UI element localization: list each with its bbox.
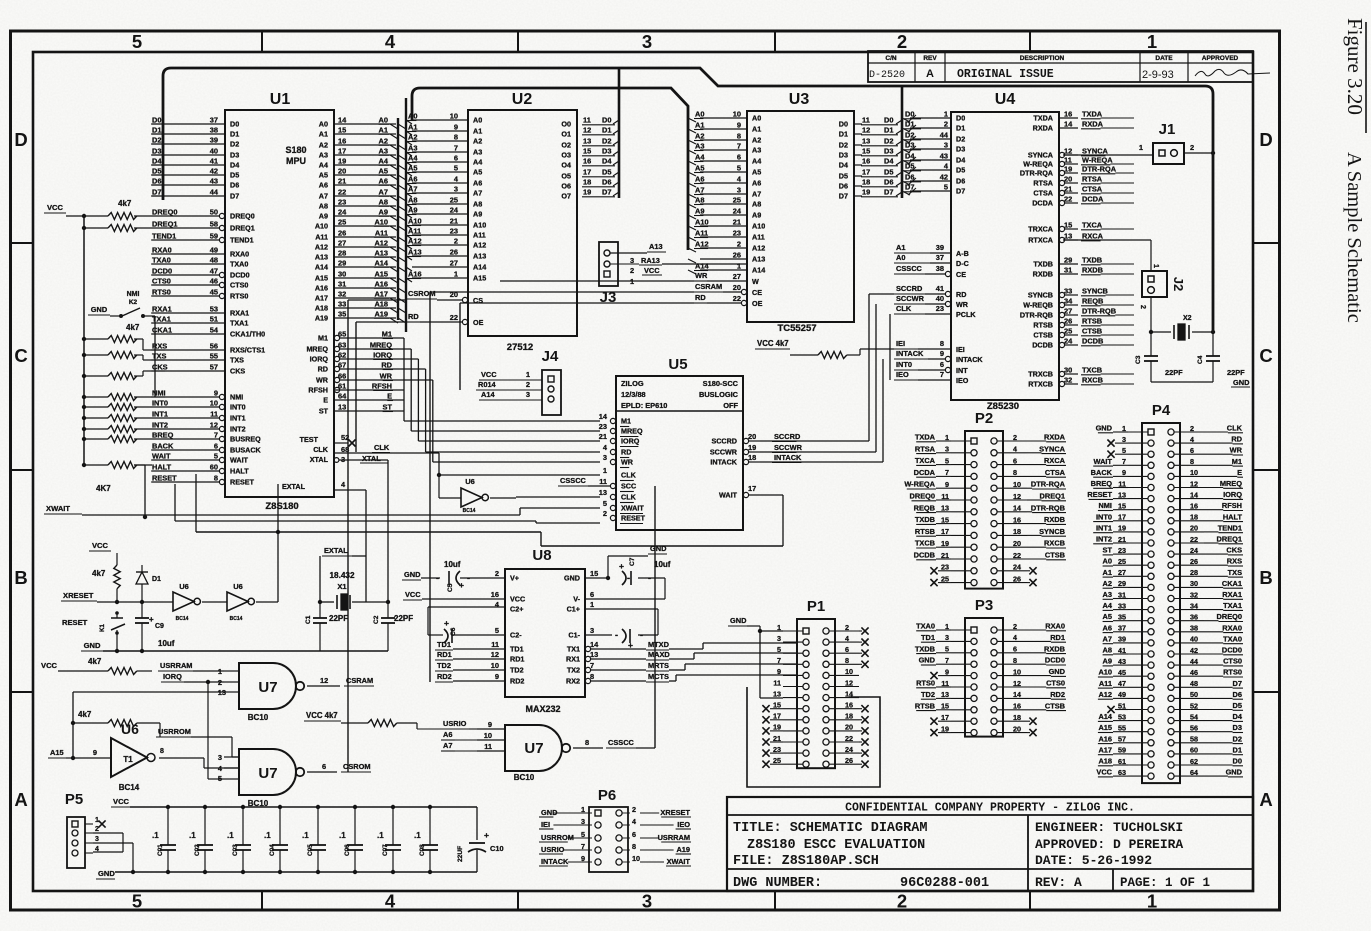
svg-text:32: 32 bbox=[1064, 376, 1072, 385]
svg-text:30: 30 bbox=[338, 270, 346, 279]
svg-text:BREQ: BREQ bbox=[152, 431, 174, 440]
svg-text:3: 3 bbox=[944, 141, 948, 150]
svg-text:48: 48 bbox=[1190, 679, 1198, 688]
svg-text:MRTS: MRTS bbox=[648, 661, 669, 670]
svg-text:TXA0: TXA0 bbox=[1223, 634, 1242, 643]
svg-text:C4: C4 bbox=[1197, 355, 1204, 364]
svg-text:.1: .1 bbox=[189, 831, 196, 840]
svg-text:O6: O6 bbox=[561, 182, 571, 191]
svg-text:RTS0: RTS0 bbox=[916, 679, 935, 688]
wires left stubs bbox=[145, 470, 152, 472]
svg-text:GND: GND bbox=[1096, 424, 1113, 433]
IC U4 Z85230 ESCC body bbox=[951, 91, 1059, 412]
svg-text:11: 11 bbox=[583, 116, 591, 125]
svg-text:VCC: VCC bbox=[92, 541, 109, 550]
svg-text:WAIT: WAIT bbox=[1094, 457, 1113, 466]
svg-text:58: 58 bbox=[210, 220, 218, 229]
svg-text:CSRAM: CSRAM bbox=[695, 282, 722, 291]
connector J3 bbox=[599, 242, 747, 306]
svg-text:4K7: 4K7 bbox=[96, 484, 111, 493]
svg-text:8: 8 bbox=[454, 133, 458, 142]
svg-text:39: 39 bbox=[936, 243, 944, 252]
svg-text:D2: D2 bbox=[956, 135, 965, 144]
svg-text:10: 10 bbox=[491, 661, 499, 670]
svg-text:RXS: RXS bbox=[152, 342, 167, 351]
svg-text:31: 31 bbox=[338, 280, 346, 289]
svg-text:2: 2 bbox=[526, 380, 530, 389]
svg-text:12: 12 bbox=[1064, 147, 1072, 156]
svg-text:22: 22 bbox=[1013, 551, 1021, 560]
svg-text:.1: .1 bbox=[264, 831, 271, 840]
svg-text:12: 12 bbox=[210, 421, 218, 430]
svg-text:A6: A6 bbox=[408, 175, 417, 184]
capacitor C08 0.1uF decoupling bbox=[414, 805, 438, 874]
svg-text:A0: A0 bbox=[896, 253, 905, 262]
svg-text:X2: X2 bbox=[1183, 315, 1192, 322]
svg-text:C5: C5 bbox=[447, 583, 454, 592]
svg-text:A5: A5 bbox=[408, 164, 417, 173]
wire U2 data rail bbox=[618, 68, 621, 198]
svg-text:4: 4 bbox=[1013, 633, 1017, 642]
pins U2 CS OE bbox=[407, 289, 484, 327]
svg-text:CLK: CLK bbox=[313, 445, 329, 454]
svg-text:4k7: 4k7 bbox=[126, 323, 140, 332]
wire U3 control bbox=[430, 281, 694, 380]
svg-text:4: 4 bbox=[632, 817, 636, 826]
wire data bus top bbox=[163, 68, 1213, 332]
svg-text:2: 2 bbox=[1190, 143, 1194, 152]
svg-text:18: 18 bbox=[748, 453, 756, 462]
pins U1 right control bbox=[306, 330, 393, 416]
svg-text:17: 17 bbox=[862, 168, 870, 177]
svg-text:25: 25 bbox=[338, 218, 346, 227]
svg-text:A0: A0 bbox=[752, 114, 761, 123]
svg-text:A7: A7 bbox=[319, 192, 328, 201]
svg-text:29: 29 bbox=[1064, 256, 1072, 265]
svg-text:18: 18 bbox=[845, 712, 853, 721]
svg-text:M1: M1 bbox=[1232, 457, 1242, 466]
svg-text:BUSACK: BUSACK bbox=[230, 446, 262, 455]
resistor 4k7 usrram pullup bbox=[41, 657, 224, 675]
resistor 4k7 usrrom pullup bbox=[71, 710, 160, 737]
svg-text:WR: WR bbox=[695, 271, 708, 280]
connector J1 bbox=[1063, 121, 1215, 164]
svg-text:22: 22 bbox=[845, 734, 853, 743]
svg-text:U6: U6 bbox=[121, 721, 139, 737]
svg-text:25: 25 bbox=[450, 196, 458, 205]
svg-text:D2: D2 bbox=[602, 137, 611, 146]
svg-text:13: 13 bbox=[590, 650, 598, 659]
svg-text:3: 3 bbox=[454, 185, 458, 194]
svg-text:57: 57 bbox=[210, 363, 218, 372]
svg-text:20: 20 bbox=[1013, 724, 1021, 733]
svg-text:ZILOG: ZILOG bbox=[621, 379, 644, 388]
svg-text:DATE: 5-26-1992: DATE: 5-26-1992 bbox=[1035, 853, 1152, 868]
svg-text:3: 3 bbox=[590, 626, 594, 635]
svg-text:40: 40 bbox=[936, 294, 944, 303]
svg-text:FILE: Z8S180AP.SCH: FILE: Z8S180AP.SCH bbox=[733, 854, 879, 869]
svg-text:BACK: BACK bbox=[1091, 468, 1113, 477]
svg-text:6: 6 bbox=[940, 360, 944, 369]
svg-text:8: 8 bbox=[632, 842, 636, 851]
svg-text:XTAL: XTAL bbox=[310, 455, 329, 464]
svg-text:23: 23 bbox=[338, 198, 346, 207]
svg-text:C07: C07 bbox=[382, 844, 389, 856]
wire VCC rail left bbox=[83, 216, 85, 465]
svg-text:TITLE: SCHEMATIC DIAGRAM: TITLE: SCHEMATIC DIAGRAM bbox=[733, 821, 927, 836]
svg-text:2: 2 bbox=[495, 569, 499, 578]
svg-text:23: 23 bbox=[936, 304, 944, 313]
svg-text:A18: A18 bbox=[315, 304, 328, 313]
svg-text:A3: A3 bbox=[1103, 590, 1112, 599]
svg-text:15: 15 bbox=[338, 126, 346, 135]
svg-text:USRRAM: USRRAM bbox=[658, 833, 690, 842]
svg-text:25: 25 bbox=[733, 196, 741, 205]
svg-text:GND: GND bbox=[730, 616, 747, 625]
svg-text:23: 23 bbox=[450, 227, 458, 236]
svg-text:CTS0: CTS0 bbox=[230, 281, 248, 290]
svg-text:A15: A15 bbox=[1098, 723, 1112, 732]
svg-text:34: 34 bbox=[1064, 297, 1073, 306]
wire csrom bbox=[308, 770, 348, 772]
svg-text:MREQ: MREQ bbox=[306, 345, 328, 354]
svg-text:3: 3 bbox=[603, 453, 607, 462]
wire csram vertical bbox=[429, 292, 431, 682]
svg-text:33: 33 bbox=[338, 300, 346, 309]
svg-text:16: 16 bbox=[845, 701, 853, 710]
capacitor C4 22PF bbox=[1197, 332, 1245, 382]
svg-text:43: 43 bbox=[210, 177, 218, 186]
svg-text:A5: A5 bbox=[473, 168, 482, 177]
svg-text:P1: P1 bbox=[807, 598, 825, 615]
svg-text:16: 16 bbox=[1013, 515, 1021, 524]
svg-text:D7: D7 bbox=[602, 188, 611, 197]
wire address bus top bbox=[412, 88, 688, 250]
svg-text:TXA0: TXA0 bbox=[152, 256, 171, 265]
svg-text:15: 15 bbox=[862, 147, 870, 156]
svg-text:D1: D1 bbox=[884, 126, 893, 135]
svg-text:D3: D3 bbox=[602, 147, 611, 156]
svg-text:A8: A8 bbox=[379, 198, 388, 207]
svg-text:A9: A9 bbox=[408, 206, 417, 215]
svg-text:20: 20 bbox=[1064, 175, 1072, 184]
svg-text:VCC 4k7: VCC 4k7 bbox=[757, 339, 789, 348]
svg-text:RD1: RD1 bbox=[510, 655, 524, 664]
svg-text:GND: GND bbox=[98, 869, 115, 878]
svg-text:PAGE: 1 OF 1: PAGE: 1 OF 1 bbox=[1120, 876, 1210, 890]
nand gate U7a BC10 bbox=[218, 663, 374, 722]
svg-text:A13: A13 bbox=[752, 255, 765, 264]
inverter U6 reset 2 bbox=[227, 484, 278, 622]
svg-text:11: 11 bbox=[1118, 479, 1126, 488]
capacitor C06 0.1uF decoupling bbox=[339, 805, 363, 874]
svg-text:RTSA: RTSA bbox=[915, 444, 936, 453]
svg-text:RXDA: RXDA bbox=[1033, 124, 1053, 133]
svg-text:RD: RD bbox=[1231, 435, 1242, 444]
svg-text:D: D bbox=[14, 129, 27, 150]
svg-text:J2: J2 bbox=[1171, 277, 1186, 291]
svg-text:A2: A2 bbox=[752, 136, 761, 145]
svg-text:5: 5 bbox=[132, 891, 142, 912]
svg-text:2-9-93: 2-9-93 bbox=[1142, 69, 1174, 81]
svg-text:2: 2 bbox=[1190, 424, 1194, 433]
svg-text:SCCRD: SCCRD bbox=[896, 284, 923, 293]
svg-text:A Sample Schematic: A Sample Schematic bbox=[1343, 152, 1365, 323]
svg-text:56: 56 bbox=[1190, 724, 1198, 733]
svg-text:K2: K2 bbox=[129, 299, 138, 306]
wire csrom vertical bbox=[348, 300, 407, 772]
svg-text:1: 1 bbox=[1152, 264, 1159, 268]
svg-text:RTS0: RTS0 bbox=[1223, 668, 1242, 677]
resistor 4k7 pullup INT0 bbox=[82, 404, 152, 411]
svg-text:D1: D1 bbox=[839, 130, 848, 139]
svg-text:RTS0: RTS0 bbox=[230, 292, 248, 301]
svg-text:+: + bbox=[149, 615, 154, 624]
svg-text:53: 53 bbox=[210, 305, 218, 314]
svg-text:O7: O7 bbox=[561, 192, 571, 201]
svg-text:W-REQA: W-REQA bbox=[904, 480, 935, 489]
svg-text:A11: A11 bbox=[315, 233, 328, 242]
svg-text:RTSB: RTSB bbox=[1033, 321, 1053, 330]
svg-text:XWAIT: XWAIT bbox=[621, 504, 644, 513]
svg-text:.1: .1 bbox=[227, 831, 234, 840]
svg-text:SCCRD: SCCRD bbox=[711, 437, 737, 446]
capacitor C6 reservoir bbox=[428, 607, 505, 643]
svg-text:DREQ1: DREQ1 bbox=[230, 224, 255, 233]
svg-text:A2: A2 bbox=[695, 132, 704, 141]
svg-text:26: 26 bbox=[1190, 557, 1198, 566]
svg-text:A8: A8 bbox=[408, 196, 417, 205]
svg-text:RFSH: RFSH bbox=[372, 382, 392, 391]
svg-text:SYNCA: SYNCA bbox=[1039, 444, 1066, 453]
connector P3 bbox=[915, 597, 1066, 737]
svg-text:14: 14 bbox=[599, 412, 608, 421]
svg-text:10uf: 10uf bbox=[158, 639, 175, 648]
svg-text:46: 46 bbox=[1190, 668, 1198, 677]
svg-text:62: 62 bbox=[1190, 757, 1198, 766]
svg-text:CTSB: CTSB bbox=[1082, 327, 1102, 336]
svg-text:S180: S180 bbox=[285, 145, 306, 155]
svg-text:9: 9 bbox=[940, 349, 944, 358]
svg-text:A14: A14 bbox=[752, 266, 765, 275]
svg-text:TRXCA: TRXCA bbox=[1028, 225, 1053, 234]
IC U1 Z8S180 MPU body bbox=[225, 91, 334, 512]
svg-text:EPLD: EP610: EPLD: EP610 bbox=[621, 401, 667, 410]
svg-text:MCTS: MCTS bbox=[648, 672, 669, 681]
svg-text:1: 1 bbox=[1147, 891, 1157, 912]
svg-text:20: 20 bbox=[1190, 524, 1198, 533]
svg-text:D3: D3 bbox=[1233, 723, 1242, 732]
svg-text:RD1: RD1 bbox=[437, 650, 452, 659]
resistor 4k7 pullup CKS bbox=[82, 371, 152, 380]
svg-text:BACK: BACK bbox=[152, 442, 174, 451]
svg-text:D0: D0 bbox=[152, 116, 161, 125]
svg-text:8: 8 bbox=[940, 339, 944, 348]
svg-text:9: 9 bbox=[945, 480, 949, 489]
svg-text:A4: A4 bbox=[1103, 601, 1113, 610]
svg-text:D2: D2 bbox=[839, 141, 848, 150]
svg-text:D3: D3 bbox=[839, 151, 848, 160]
resistor 4k7 reset pullup bbox=[89, 541, 120, 604]
svg-text:O5: O5 bbox=[561, 172, 571, 181]
svg-text:X1: X1 bbox=[337, 582, 347, 591]
svg-text:INTACK: INTACK bbox=[896, 349, 924, 358]
svg-text:P2: P2 bbox=[975, 410, 993, 427]
svg-text:INT0: INT0 bbox=[152, 399, 168, 408]
svg-text:DCD0: DCD0 bbox=[230, 271, 250, 280]
svg-text:TEST: TEST bbox=[300, 435, 319, 444]
svg-text:A12: A12 bbox=[315, 243, 328, 252]
svg-text:A10: A10 bbox=[752, 222, 765, 231]
capacitor C1 22PF bbox=[305, 602, 348, 651]
svg-text:IORQ: IORQ bbox=[163, 672, 182, 681]
svg-text:D3: D3 bbox=[230, 151, 239, 160]
svg-text:E: E bbox=[387, 392, 392, 401]
svg-text:D4: D4 bbox=[1233, 712, 1243, 721]
svg-text:RXA1: RXA1 bbox=[152, 305, 172, 314]
svg-text:MAX232: MAX232 bbox=[525, 704, 560, 714]
svg-text:EXTAL: EXTAL bbox=[282, 482, 306, 491]
svg-text:VCC: VCC bbox=[113, 797, 130, 806]
svg-text:A17: A17 bbox=[1098, 745, 1112, 754]
svg-text:4k7: 4k7 bbox=[92, 569, 106, 578]
svg-text:D6: D6 bbox=[152, 177, 161, 186]
svg-text:3: 3 bbox=[642, 31, 652, 52]
svg-text:RD1: RD1 bbox=[1050, 633, 1065, 642]
svg-text:13: 13 bbox=[941, 504, 949, 513]
svg-text:MPU: MPU bbox=[286, 156, 306, 166]
svg-text:RXCA: RXCA bbox=[1044, 456, 1066, 465]
svg-text:10: 10 bbox=[210, 399, 218, 408]
svg-text:D0: D0 bbox=[884, 116, 893, 125]
svg-text:26: 26 bbox=[450, 248, 458, 257]
connector P2 bbox=[904, 410, 1066, 589]
svg-text:A0: A0 bbox=[695, 110, 704, 119]
svg-text:TX2: TX2 bbox=[567, 666, 580, 675]
svg-text:4: 4 bbox=[1190, 435, 1194, 444]
resistor 4k7 pullup NMI bbox=[82, 394, 152, 401]
svg-text:SYNCB: SYNCB bbox=[1028, 291, 1053, 300]
svg-text:TD2: TD2 bbox=[437, 661, 451, 670]
svg-text:D7: D7 bbox=[956, 187, 965, 196]
svg-text:6: 6 bbox=[1190, 446, 1194, 455]
svg-text:MREQ: MREQ bbox=[621, 427, 643, 436]
svg-text:OE: OE bbox=[473, 318, 484, 327]
svg-text:TXA1: TXA1 bbox=[230, 319, 248, 328]
svg-text:A1: A1 bbox=[379, 126, 388, 135]
svg-text:RFSH: RFSH bbox=[308, 386, 328, 395]
svg-text:10: 10 bbox=[484, 731, 492, 740]
svg-text:CSROM: CSROM bbox=[343, 762, 371, 771]
svg-text:A7: A7 bbox=[752, 190, 761, 199]
svg-text:.1: .1 bbox=[414, 831, 421, 840]
svg-text:60: 60 bbox=[1190, 746, 1198, 755]
svg-text:U3: U3 bbox=[789, 91, 810, 108]
svg-text:16: 16 bbox=[583, 157, 591, 166]
svg-text:21: 21 bbox=[338, 177, 346, 186]
svg-text:26: 26 bbox=[1013, 574, 1021, 583]
wire P1 gnd bbox=[728, 616, 783, 698]
svg-text:CSSCC: CSSCC bbox=[896, 264, 923, 273]
svg-text:16: 16 bbox=[491, 590, 499, 599]
svg-text:5: 5 bbox=[214, 452, 218, 461]
svg-text:12/3/88: 12/3/88 bbox=[621, 390, 646, 399]
wire P1 loop bbox=[747, 687, 880, 787]
svg-text:D6: D6 bbox=[1233, 690, 1242, 699]
svg-text:RXS: RXS bbox=[1227, 557, 1242, 566]
svg-text:11: 11 bbox=[862, 116, 870, 125]
IC U8 MAX232 body bbox=[505, 547, 585, 714]
svg-text:BUSREQ: BUSREQ bbox=[230, 435, 261, 444]
svg-text:RXCB: RXCB bbox=[1082, 376, 1103, 385]
pins U2 right data bbox=[561, 116, 619, 201]
svg-text:8: 8 bbox=[845, 656, 849, 665]
svg-text:CE: CE bbox=[752, 288, 762, 297]
svg-text:CSSCC: CSSCC bbox=[608, 738, 635, 747]
svg-text:A9: A9 bbox=[473, 210, 482, 219]
svg-text:41: 41 bbox=[936, 284, 944, 293]
svg-text:C: C bbox=[1259, 345, 1272, 366]
wire U1-U2 address rail bbox=[398, 98, 406, 332]
svg-text:3: 3 bbox=[526, 390, 530, 399]
svg-text:3: 3 bbox=[737, 186, 741, 195]
svg-text:RA13: RA13 bbox=[641, 256, 660, 265]
svg-text:A19: A19 bbox=[676, 845, 690, 854]
svg-text:CKA1: CKA1 bbox=[1222, 579, 1242, 588]
svg-text:A15: A15 bbox=[374, 270, 388, 279]
svg-text:D-2520: D-2520 bbox=[869, 70, 905, 81]
title block bbox=[727, 797, 1253, 891]
svg-text:C03: C03 bbox=[232, 844, 239, 856]
svg-text:A16: A16 bbox=[1098, 734, 1112, 743]
svg-text:19: 19 bbox=[338, 157, 346, 166]
svg-text:A13: A13 bbox=[408, 248, 422, 257]
svg-text:VCC: VCC bbox=[47, 203, 64, 212]
resistor 4k7 pullup INT2 bbox=[82, 426, 152, 433]
svg-text:A0: A0 bbox=[379, 116, 388, 125]
svg-text:WR: WR bbox=[621, 458, 634, 467]
svg-text:A4: A4 bbox=[408, 154, 418, 163]
svg-text:IORQ: IORQ bbox=[373, 351, 392, 360]
svg-text:SCCWR: SCCWR bbox=[896, 294, 925, 303]
svg-text:TXCB: TXCB bbox=[1082, 366, 1102, 375]
svg-text:11: 11 bbox=[599, 477, 607, 486]
svg-text:.1: .1 bbox=[339, 831, 346, 840]
svg-text:13: 13 bbox=[862, 137, 870, 146]
svg-text:CTSA: CTSA bbox=[1033, 189, 1053, 198]
svg-text:CLK: CLK bbox=[621, 493, 637, 502]
svg-text:J1: J1 bbox=[1159, 121, 1176, 138]
svg-text:T1: T1 bbox=[123, 755, 133, 764]
svg-text:37: 37 bbox=[936, 253, 944, 262]
wire csscc vertical bbox=[588, 486, 655, 748]
svg-text:C06: C06 bbox=[344, 844, 351, 856]
svg-text:BC14: BC14 bbox=[230, 616, 243, 622]
svg-text:A16: A16 bbox=[374, 280, 388, 289]
svg-text:22PF: 22PF bbox=[1165, 368, 1183, 377]
svg-text:3: 3 bbox=[218, 753, 222, 762]
wire pullup to xwait bbox=[134, 465, 145, 517]
svg-text:VCC: VCC bbox=[1096, 768, 1112, 777]
svg-text:9: 9 bbox=[454, 123, 458, 132]
svg-text:WAIT: WAIT bbox=[719, 491, 738, 500]
svg-text:13: 13 bbox=[583, 137, 591, 146]
svg-text:3: 3 bbox=[777, 634, 781, 643]
svg-text:ENGINEER: TUCHOLSKI: ENGINEER: TUCHOLSKI bbox=[1035, 820, 1183, 835]
svg-text:TXDA: TXDA bbox=[1082, 110, 1103, 119]
svg-text:WR: WR bbox=[380, 372, 393, 381]
svg-text:SYNCA: SYNCA bbox=[1082, 147, 1109, 156]
